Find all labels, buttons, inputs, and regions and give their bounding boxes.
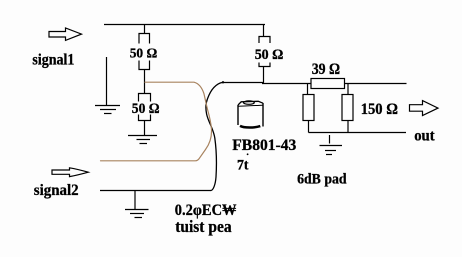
svg-text:50 Ω: 50 Ω	[132, 101, 160, 117]
svg-text:39 Ω: 39 Ω	[312, 61, 341, 78]
svg-text:FB801-43: FB801-43	[232, 137, 296, 154]
svg-text:7t: 7t	[237, 158, 249, 174]
svg-text:150 Ω: 150 Ω	[361, 101, 398, 118]
svg-text:50 Ω: 50 Ω	[255, 47, 284, 63]
svg-text:signal1: signal1	[32, 51, 74, 68]
svg-text:6dB pad: 6dB pad	[297, 171, 347, 187]
svg-text:50 Ω: 50 Ω	[130, 46, 158, 61]
svg-text:signal2: signal2	[34, 182, 79, 199]
svg-text:tuist pea: tuist pea	[175, 217, 231, 236]
svg-text:out: out	[414, 127, 435, 144]
